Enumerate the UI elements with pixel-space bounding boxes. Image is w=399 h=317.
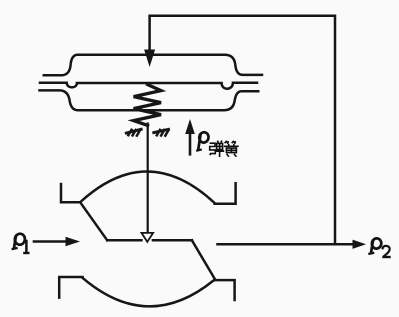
valve partition right diagonal bbox=[192, 240, 215, 279]
valve bottom dome arc bbox=[83, 278, 214, 306]
label 弹 (hand-drawn strokes) bbox=[210, 141, 225, 158]
wire outlet line to p2 bbox=[218, 243, 355, 246]
valve bottom-right flange bracket bbox=[215, 280, 234, 300]
spring anchor hatch left: teeth bbox=[128, 130, 140, 136]
wire spring-pressure arrow shaft bbox=[189, 132, 192, 154]
arrowhead: feedback down into capsule bbox=[144, 50, 155, 68]
valve plug triangle bbox=[142, 233, 154, 242]
capsule top shell with flanges bbox=[44, 55, 262, 75]
capsule diaphragm mid line with convolutions bbox=[40, 83, 257, 89]
valve top-right flange bracket bbox=[215, 183, 236, 204]
arrowhead: p2 outlet bbox=[353, 240, 367, 249]
spring zigzag bbox=[134, 85, 161, 126]
valve top dome arc bbox=[80, 171, 214, 203]
valve seat right bbox=[153, 239, 192, 242]
stem from spring to valve plug bbox=[147, 124, 149, 233]
label p (spring pressure) bbox=[196, 131, 209, 150]
capsule bottom shell with flanges bbox=[40, 90, 259, 110]
label p2 bbox=[368, 238, 390, 257]
label 簧 (hand-drawn strokes) bbox=[224, 141, 239, 157]
valve bottom-left flange bracket bbox=[59, 277, 82, 298]
arrowhead: p1 inlet bbox=[66, 237, 81, 246]
spring anchor hatch right: bar bbox=[154, 129, 169, 132]
spring anchor hatch right: teeth bbox=[157, 130, 169, 136]
label p1 bbox=[12, 233, 30, 253]
valve partition left diagonal bbox=[80, 203, 107, 241]
valve top-left flange bracket bbox=[61, 184, 80, 202]
wire inlet line from p1 bbox=[34, 240, 67, 243]
arrowhead: spring pressure up bbox=[185, 119, 195, 134]
spring anchor hatch left: bar bbox=[126, 129, 141, 133]
valve seat left bbox=[107, 239, 141, 242]
wire feedback loop: top and right side bbox=[150, 16, 335, 244]
